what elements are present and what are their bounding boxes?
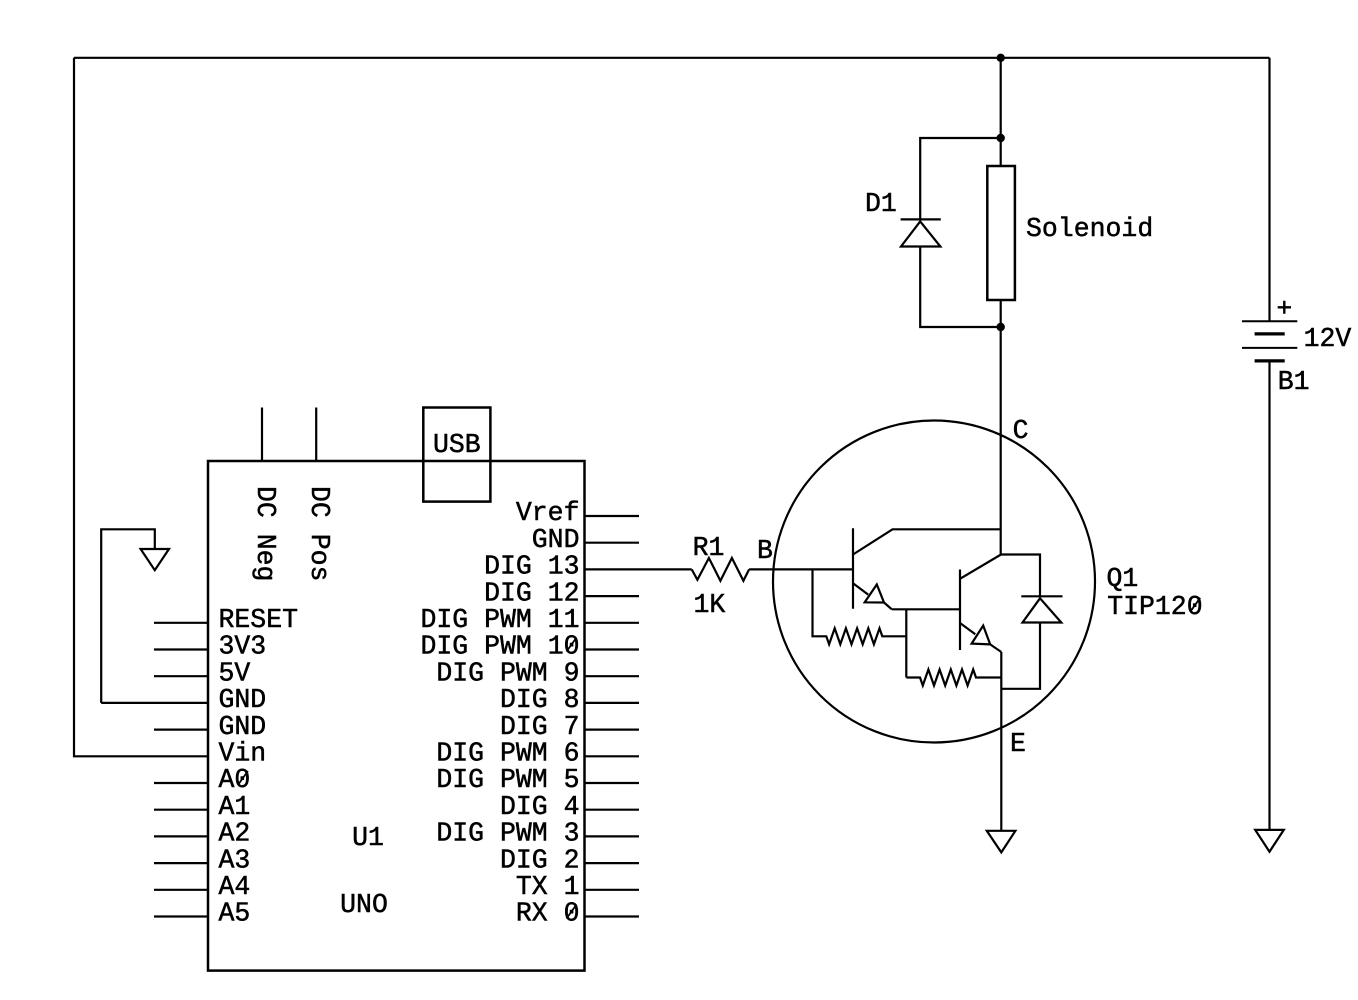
svg-text:A4: A4 [219,872,251,902]
Q1 T1 emitter arrow [865,585,884,603]
pin GND stub [154,728,209,730]
svg-text:DIG 7: DIG 7 [500,712,580,742]
wire node B to Q1 base [749,568,853,570]
wire RB1/T1e junction down [905,609,907,677]
pin A1 stub [154,809,209,811]
pin A4 stub [154,889,209,891]
diode D2 cathode bar [1021,595,1062,597]
wire right rail down to battery + [1268,58,1270,322]
svg-text:DIG 2: DIG 2 [500,845,580,875]
pin DIG PWM 5 stub [585,782,640,784]
ground symbol emitter [987,831,1016,853]
svg-text:GND: GND [219,712,267,742]
node junction dot solenoid top [997,134,1005,142]
wire battery - down to ground [1268,362,1270,830]
svg-text:R1: R1 [693,533,725,563]
svg-text:Solenoid: Solenoid [1026,214,1153,244]
svg-text:A5: A5 [219,899,251,929]
wire solenoid bottom to node C rail [1000,300,1002,555]
Q1 T1 collector [853,529,1001,554]
diode D2 triangle [1023,598,1062,622]
svg-text:DIG 13: DIG 13 [484,552,579,582]
svg-text:USB: USB [433,430,481,460]
svg-text:B: B [757,536,773,566]
svg-text:A2: A2 [219,819,251,849]
pin 5V stub [154,675,209,677]
svg-text:A0: A0 [219,765,251,795]
pin DIG PWM 11 stub [585,622,640,624]
pin DIG PWM 3 stub [585,835,640,837]
Q1 T2 emitter [960,623,1001,652]
node junction dot top rail [997,54,1005,62]
svg-text:DIG PWM 3: DIG PWM 3 [436,819,579,849]
resistor RB1 (base-emitter T1) [813,569,907,644]
battery B1 plate long top [1242,320,1297,322]
svg-text:D1: D1 [865,189,897,219]
wire D1 bottom branch [920,247,1001,328]
pin DIG 12 stub [585,595,640,597]
Q1 inner transistor 2 base bar [959,570,961,651]
svg-text:12V: 12V [1304,324,1352,354]
wire top rail 12V+ from left loop to battery [74,57,1270,59]
solenoid L1 body [987,166,1015,300]
wire from top rail to solenoid node [1000,58,1002,166]
svg-text:5V: 5V [219,658,251,688]
wire T1 emitter to T2 base [892,608,960,610]
diode D2 (Q1 internal) top wire [1001,555,1040,597]
pin A3 stub [154,862,209,864]
svg-text:GND: GND [532,525,580,555]
svg-text:DC Neg: DC Neg [250,486,280,581]
pin DIG 8 stub [585,702,640,704]
pin DIG 7 stub [585,728,640,730]
diode D1 triangle [901,221,940,246]
USB connector box [423,408,490,502]
pin DIG PWM 9 stub [585,675,640,677]
transistor Q1 envelope circle [773,421,1095,743]
Q1 T2 emitter arrow [972,626,991,645]
pin DIG 4 stub [585,809,640,811]
wire DIG 13 to R1 [585,568,692,570]
svg-text:TX 1: TX 1 [516,872,580,902]
Q1 T1 emitter [853,583,892,609]
svg-text:DIG 8: DIG 8 [500,685,580,715]
svg-text:B1: B1 [1278,367,1310,397]
battery B1 plate short thick [1255,332,1285,335]
pin Vref stub [585,515,640,517]
pin A5 stub [154,915,209,917]
slashed zero marks [238,598,1200,919]
diode D2 bottom wire [1001,623,1040,689]
pin 3V3 stub [154,648,209,650]
svg-text:TIP120: TIP120 [1107,592,1202,622]
svg-text:DIG PWM 11: DIG PWM 11 [420,605,579,635]
battery B1 plate short thick bottom [1255,359,1285,362]
svg-text:Vref: Vref [516,498,580,528]
pin A2 stub [154,835,209,837]
svg-text:A3: A3 [219,845,251,875]
pin GND stub [585,542,640,544]
svg-text:E: E [1010,729,1026,759]
svg-text:C: C [1013,416,1029,446]
battery plus sign [1278,301,1291,314]
pin RX 0 stub [585,915,640,917]
svg-text:DIG PWM 5: DIG PWM 5 [436,765,579,795]
svg-text:DC Pos: DC Pos [304,486,334,581]
node junction dot solenoid bottom [997,323,1005,331]
pin DC Neg stub [261,408,263,462]
svg-text:A1: A1 [219,792,251,822]
diode D1 cathode bar [901,218,941,220]
svg-text:UNO: UNO [340,890,388,920]
pin DIG PWM 10 stub [585,648,640,650]
pin DIG 2 stub [585,862,640,864]
svg-text:3V3: 3V3 [219,632,267,662]
svg-text:DIG 12: DIG 12 [484,578,579,608]
wire Q1 emitter to ground [1000,652,1002,831]
pin DIG PWM 6 stub [585,755,640,757]
svg-text:DIG 4: DIG 4 [500,792,580,822]
ground symbol right (battery negative) [1255,830,1284,852]
svg-text:DIG PWM 9: DIG PWM 9 [436,658,579,688]
svg-text:Q1: Q1 [1107,564,1139,594]
ground symbol left (Arduino GND) [101,529,209,703]
pin TX 1 stub [585,889,640,891]
resistor R1 [692,558,749,581]
wire left rail down to Vin [74,58,209,757]
svg-text:RESET: RESET [219,605,299,635]
Q1 inner transistor 1 base bar [852,528,854,609]
svg-text:U1: U1 [352,823,384,853]
battery B1 plate long mid [1242,347,1297,349]
svg-text:DIG PWM 6: DIG PWM 6 [436,739,579,769]
svg-text:DIG PWM 10: DIG PWM 10 [420,632,579,662]
svg-text:1K: 1K [694,590,726,620]
svg-text:Vin: Vin [219,739,267,769]
Q1 T2 collector [960,555,1001,579]
resistor RB2 (base-emitter T2) [906,670,1001,686]
IC U1 Arduino body [208,461,585,971]
wire D1 top branch [920,138,1001,219]
pin RESET stub [154,622,209,624]
pin DC Pos stub [315,408,317,462]
svg-text:GND: GND [219,685,267,715]
pin A0 stub [154,782,209,784]
